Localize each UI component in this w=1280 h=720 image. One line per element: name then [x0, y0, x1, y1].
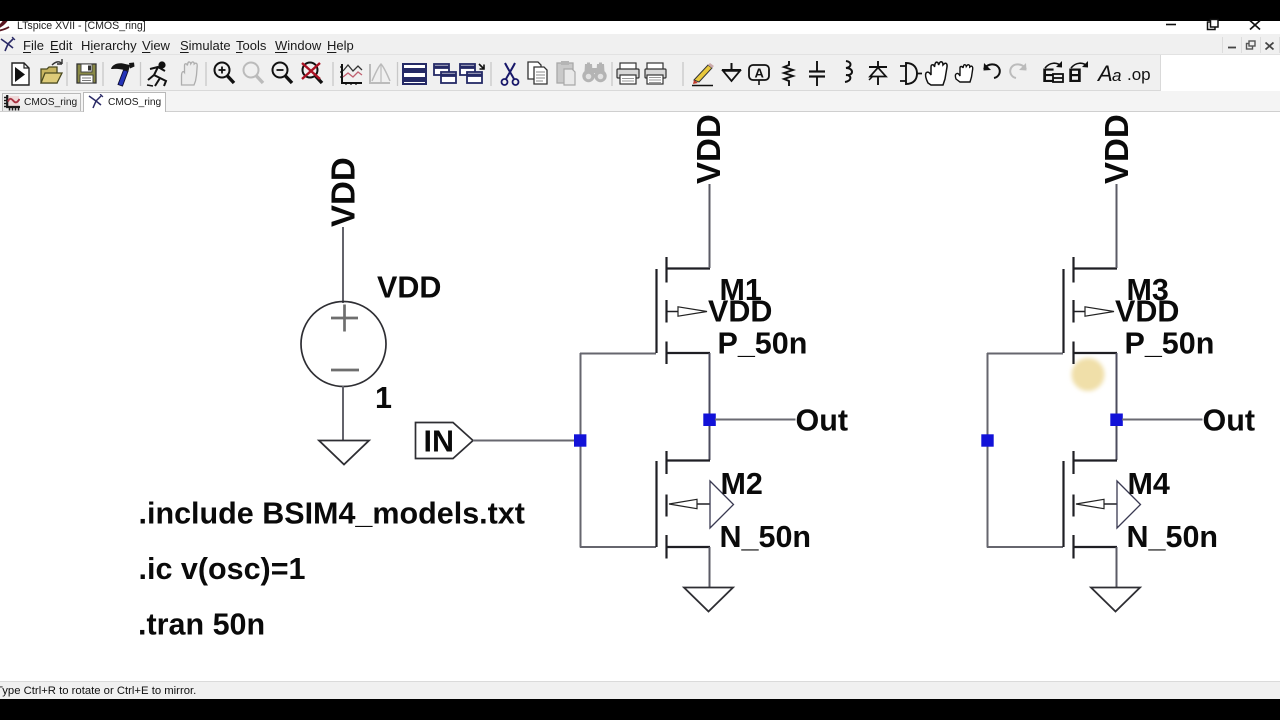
- plus mark: [331, 305, 358, 332]
- label Out (inverter 1): [796, 404, 849, 438]
- open icon: [41, 59, 62, 83]
- hammer icon: [111, 63, 135, 87]
- text icon (Aa): [1096, 61, 1121, 86]
- label P_50n (M3 model): [1125, 327, 1215, 361]
- wire node to Out label (inverter 2): [1122, 419, 1203, 421]
- svg-text:P_50n: P_50n: [1125, 327, 1215, 361]
- svg-text:VDD: VDD: [377, 271, 441, 305]
- tile window icon: [403, 64, 426, 84]
- inductor icon: [845, 61, 852, 82]
- ground icon: [722, 63, 741, 81]
- node B (inverter 2 input): [981, 434, 993, 446]
- run icon: [12, 63, 29, 85]
- svg-text:VDD: VDD: [690, 114, 727, 184]
- wire input bus (inverter 2): [987, 353, 989, 548]
- directive .include: [139, 497, 525, 531]
- move hand icon: [926, 62, 947, 85]
- label N_50n (M2 model): [720, 520, 812, 554]
- svg-text:N_50n: N_50n: [1127, 520, 1219, 554]
- wire M3 source to VDD flag: [1116, 184, 1118, 268]
- svg-text:.include BSIM4_models.txt: .include BSIM4_models.txt: [139, 497, 525, 531]
- label M1: [720, 273, 762, 307]
- cascade-arrow icon: [460, 64, 484, 83]
- tab 1 (waveform, inactive): [2, 93, 81, 111]
- svg-text:M4: M4: [1128, 467, 1170, 501]
- transistor M4 (NMOS): [1064, 451, 1118, 559]
- wire IN to node A: [473, 440, 576, 442]
- app icon fragment top-left: [0, 14, 22, 34]
- label value 1: [375, 381, 392, 415]
- svg-text:M2: M2: [721, 467, 763, 501]
- canvas: [0, 112, 1280, 681]
- svg-text:VDD: VDD: [708, 295, 772, 329]
- copy icon: [528, 62, 547, 84]
- transistor M2 (NMOS): [657, 451, 711, 559]
- svg-text:VDD: VDD: [1098, 114, 1135, 184]
- M4 bulk arrow: [1076, 499, 1104, 508]
- wire node to Out label: [715, 419, 796, 421]
- label M2: [721, 467, 763, 501]
- transistor M1 (PMOS): [657, 257, 711, 364]
- M1 bulk arrow: [678, 307, 707, 316]
- svg-text:VDD: VDD: [325, 157, 362, 227]
- cut icon: [502, 63, 519, 85]
- zoom in: [215, 63, 235, 84]
- drag hand icon: [955, 65, 972, 82]
- directive .tran: [138, 608, 265, 642]
- zoom out: [273, 63, 293, 84]
- wire M3 drain to M4 drain: [1116, 353, 1118, 460]
- wire bus to M1 gate: [580, 353, 656, 355]
- label N_50n (M4 model): [1127, 520, 1219, 554]
- wire M4 source to ground: [1116, 547, 1118, 588]
- paste icon (disabled): [557, 61, 575, 85]
- spice directive icon (.op): [1127, 65, 1151, 84]
- M4 body marker triangle: [1117, 481, 1141, 528]
- zoom fit (red cross): [302, 63, 322, 84]
- title window buttons: [1160, 15, 1270, 33]
- svg-text:N_50n: N_50n: [720, 520, 812, 554]
- label Out (inverter 2): [1203, 404, 1256, 438]
- label M3: [1127, 273, 1169, 307]
- net flag VDD (inverter 1 top, rotated): [690, 114, 727, 184]
- save icon: [77, 64, 96, 83]
- label VDD (instance name): [377, 271, 441, 305]
- wire input bus (inverter 1): [580, 353, 582, 548]
- cascade icon: [434, 64, 456, 83]
- wire M1 source to VDD flag: [709, 184, 711, 268]
- tab bar: [0, 91, 1280, 112]
- label VDD at M1 bulk: [708, 295, 772, 329]
- M3 bulk arrow: [1085, 307, 1114, 316]
- menu bar mini schematic icon: [0, 36, 16, 54]
- label VDD at M3 bulk: [1115, 295, 1179, 329]
- capacitor icon: [809, 61, 825, 86]
- M2 body marker triangle: [710, 481, 734, 528]
- svg-text:.ic v(osc)=1: .ic v(osc)=1: [139, 552, 306, 586]
- MDI window buttons in menu row: [1222, 36, 1280, 54]
- wire V source to ground: [342, 386, 344, 441]
- svg-text:Out: Out: [796, 404, 849, 438]
- voltage source VDD circle: [301, 302, 386, 387]
- wire bus to M4 gate: [987, 546, 1063, 548]
- status bar: [0, 681, 1280, 700]
- net flag VDD (left, rotated): [325, 157, 362, 227]
- svg-text:Out: Out: [1203, 404, 1256, 438]
- svg-text:P_50n: P_50n: [718, 327, 808, 361]
- diode icon: [869, 61, 887, 85]
- component gate icon: [900, 63, 922, 84]
- label P_50n (M1 model): [718, 327, 808, 361]
- transistor M3 (PMOS): [1064, 257, 1118, 364]
- svg-text:.tran 50n: .tran 50n: [138, 608, 265, 642]
- toolbar: [0, 55, 1280, 91]
- resistor icon: [784, 61, 793, 86]
- bottom black letterbox bar: [0, 699, 1280, 720]
- node Out2: [1110, 414, 1123, 427]
- mirror icon (E3): [1068, 61, 1088, 87]
- ground (inverter 2): [1091, 588, 1140, 612]
- zoom extent (disabled): [244, 63, 264, 84]
- net flag VDD (inverter 2 top, rotated): [1098, 114, 1135, 184]
- wire pencil icon: [692, 63, 714, 86]
- separators: [67, 62, 683, 86]
- label icon: [749, 65, 769, 85]
- menu bar: [0, 34, 1280, 55]
- M2 bulk arrow: [669, 499, 697, 508]
- node A (input junction): [574, 434, 586, 446]
- highlight dot (annotation): [1072, 358, 1105, 391]
- undo icon: [984, 63, 1000, 78]
- redo icon (disabled): [1010, 63, 1026, 78]
- wire bus to M3 gate: [987, 353, 1063, 355]
- port IN: [416, 423, 474, 459]
- node Out1: [703, 414, 716, 427]
- svg-text:IN: IN: [424, 425, 455, 459]
- waveform icon: [340, 64, 362, 85]
- title bar: [0, 0, 1280, 34]
- print preview icon: [645, 63, 666, 84]
- fft icon (disabled): [370, 64, 390, 83]
- label M4: [1128, 467, 1170, 501]
- tab 2 (schematic, active): [83, 92, 166, 112]
- svg-text:1: 1: [375, 381, 392, 415]
- top black letterbox bar: [0, 0, 1280, 21]
- svg-text:VDD: VDD: [1115, 295, 1179, 329]
- rotate icon (Em): [1042, 61, 1063, 87]
- wire bus to M2 gate: [580, 546, 656, 548]
- wire flag to V source: [342, 227, 344, 303]
- ground symbol (source): [319, 441, 369, 465]
- ground (inverter 1): [684, 588, 733, 612]
- wire M2 source to ground: [709, 547, 711, 588]
- directive .ic: [139, 552, 306, 586]
- minus mark: [331, 369, 359, 372]
- find icon (disabled): [582, 63, 606, 83]
- wire M1 drain to M2 drain: [709, 353, 711, 460]
- halt hand (disabled): [182, 62, 198, 85]
- print icon: [617, 63, 639, 84]
- run man icon: [147, 62, 166, 86]
